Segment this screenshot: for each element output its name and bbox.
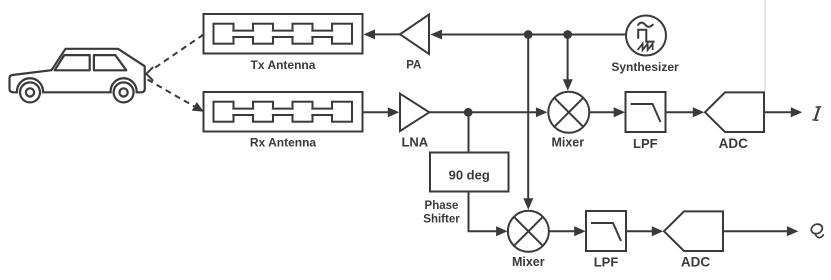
car rear wheel xyxy=(20,82,40,102)
ADC pentagon 2 xyxy=(664,211,723,251)
svg-text:Mixer: Mixer xyxy=(512,255,545,269)
Rx antenna patch squares xyxy=(214,102,234,122)
Tx antenna patch connectors xyxy=(232,30,254,38)
svg-text:ADC: ADC xyxy=(681,255,710,270)
synthesizer step waveform symbol xyxy=(638,30,654,42)
Rx antenna patch connectors xyxy=(232,108,254,116)
car wheel arch erasers xyxy=(18,80,42,104)
elbow wire phase shifter to mixer 2 xyxy=(469,192,501,232)
mixer 2 circle with X xyxy=(508,211,549,252)
open chevron arrowhead at car xyxy=(146,68,152,81)
svg-text:Shifter: Shifter xyxy=(423,214,460,226)
synthesizer sine tilde symbol xyxy=(638,23,654,27)
svg-text:90 deg: 90 deg xyxy=(449,167,490,182)
LNA triangle xyxy=(400,94,429,131)
junction node dot at LNA output xyxy=(464,108,473,117)
Tx antenna block outline xyxy=(204,14,363,54)
svg-text:LPF: LPF xyxy=(633,136,658,151)
wire LNA to mixer 1 xyxy=(429,111,540,113)
Rx antenna block outline xyxy=(204,92,363,132)
wire LPF 2 to ADC 2 xyxy=(627,230,656,232)
label Q xyxy=(810,222,824,237)
svg-text:Tx Antenna: Tx Antenna xyxy=(251,58,316,72)
phase shifter 90 deg box xyxy=(430,153,509,192)
wire LO to PA input xyxy=(437,34,528,36)
LPF response curve 1 xyxy=(631,104,661,122)
svg-text:Synthesizer: Synthesizer xyxy=(611,60,679,74)
wire synthesizer to junctions xyxy=(528,34,626,36)
LPF box 2 xyxy=(586,211,626,251)
wire LPF 1 to ADC 1 xyxy=(666,111,698,113)
synthesizer sawtooth symbol xyxy=(638,44,653,50)
wire Rx antenna to LNA xyxy=(363,111,393,113)
output wire I xyxy=(764,111,795,113)
car front fender arch xyxy=(111,78,137,92)
wire mixer 1 to LPF 1 xyxy=(589,111,618,113)
junction node dot left xyxy=(524,30,533,39)
label I xyxy=(812,107,821,121)
svg-text:LPF: LPF xyxy=(594,255,619,270)
op-amp style PA triangle xyxy=(400,15,429,55)
vertical wire junction right to mixer 1 xyxy=(567,35,569,84)
output wire Q xyxy=(723,230,791,232)
car front wheel xyxy=(114,82,134,102)
svg-text:Mixer: Mixer xyxy=(551,135,584,149)
dashed Tx wave toward car xyxy=(152,35,204,71)
synthesizer circle U1 xyxy=(626,16,666,56)
Tx antenna patch squares xyxy=(214,24,234,44)
svg-text:Phase: Phase xyxy=(425,200,459,212)
wire PA output to Tx antenna xyxy=(370,33,400,35)
vertical wire junction left to mixer 2 xyxy=(527,35,529,204)
dashed echo wave toward Rx antenna xyxy=(148,80,197,108)
svg-text:ADC: ADC xyxy=(719,136,748,151)
junction node dot right xyxy=(563,30,572,39)
vertical wire junction to phase shifter xyxy=(468,112,470,152)
car rear fender arch xyxy=(17,78,43,92)
svg-text:Rx Antenna: Rx Antenna xyxy=(250,136,317,150)
wire mixer 2 to LPF 2 xyxy=(549,230,579,232)
svg-text:LNA: LNA xyxy=(401,134,428,149)
LPF box 1 xyxy=(626,92,666,132)
mixer 1 circle with X xyxy=(548,92,589,133)
svg-text:PA: PA xyxy=(406,60,421,72)
faint vertical artifact line xyxy=(764,0,766,92)
ADC pentagon 1 xyxy=(705,92,764,132)
car (target vehicle) icon xyxy=(10,49,145,93)
LPF response curve 2 xyxy=(591,223,621,241)
